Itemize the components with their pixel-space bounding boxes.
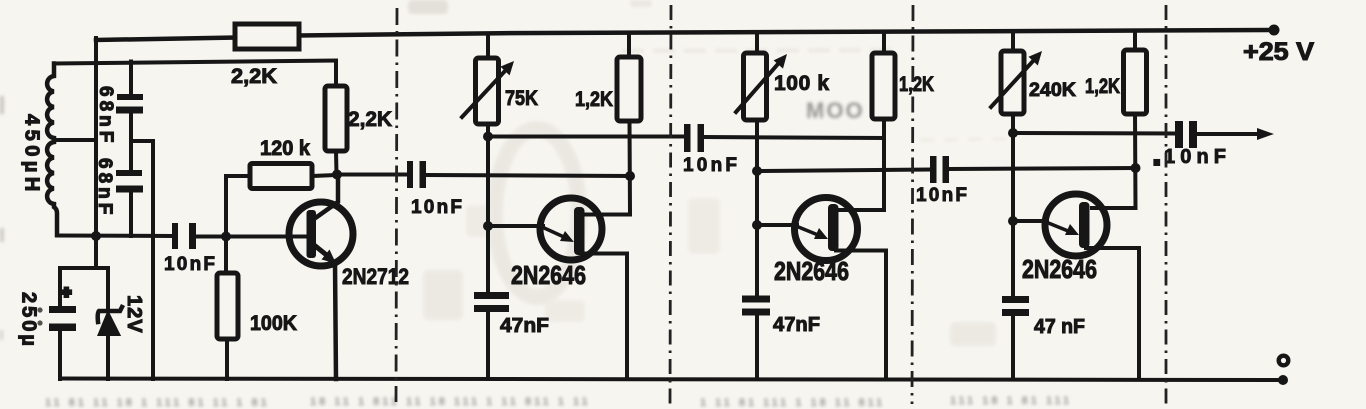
wire C10 to output arrow	[1196, 132, 1258, 136]
resistor R2 2,2K box	[325, 86, 347, 151]
wire C2 bottom lead to 12V line	[129, 192, 133, 236]
capacitor C5 10nF (collector coupling) plates	[407, 161, 426, 188]
capacitor C1 68nF top : lead	[129, 62, 133, 96]
separator dash-dot line 2	[670, 5, 671, 404]
svg-text:47nF: 47nF	[773, 314, 820, 336]
svg-text:450µH: 450µH	[21, 114, 43, 196]
scan artifact: bleed-through ring	[495, 129, 579, 297]
transistor Q2 2N2646 : circle	[540, 198, 602, 260]
output arrowhead	[1257, 128, 1274, 140]
wire cap junction to ground (jog right, down)	[131, 141, 153, 379]
svg-text:2N2712: 2N2712	[342, 265, 409, 290]
capacitor C7 47nF plates	[474, 292, 509, 312]
separator dash-dot line 3	[912, 5, 913, 404]
wire C8 to stage3 sync elbow	[949, 168, 1136, 169]
resistor R3 120k box	[250, 164, 312, 189]
capacitor C4 10nF (osc base coupling) plates	[172, 223, 196, 249]
svg-text:68nF: 68nF	[94, 158, 115, 218]
scan speck dots near 250µ	[37, 307, 42, 312]
transistor Q1 2N2712 : circle	[289, 202, 353, 266]
wire tank top (coil top to 2.2K collector load)	[54, 61, 336, 64]
svg-text:100K: 100K	[250, 312, 297, 335]
potentiometer P3 arrow	[991, 60, 1034, 107]
transistor Q3 emitter wire	[757, 223, 797, 227]
svg-text:10nF: 10nF	[411, 197, 462, 218]
capacitor C1 68nF plates	[116, 94, 143, 114]
transistor Q3 emitter diagonal + arrowhead	[796, 226, 818, 235]
resistor R7 1,2K : top lead	[1133, 32, 1137, 51]
svg-text:MOO: MOO	[806, 98, 865, 123]
transistor Q1 collector stroke and lead	[314, 174, 338, 219]
svg-text:10nF: 10nF	[164, 254, 215, 275]
node 0V rail end dot	[1278, 375, 1288, 385]
wire collector node to C5	[337, 173, 407, 177]
svg-text:111 18 1 81 111: 111 18 1 81 111	[950, 395, 1072, 407]
scan artifact: faint blob lower middle	[950, 322, 996, 346]
wire 0V bottom rail	[60, 379, 1283, 381]
potentiometer P1 75K box	[476, 58, 499, 124]
scan artifact: left edge specks	[0, 96, 4, 114]
resistor R4 100K box	[217, 273, 238, 339]
wire P3 bottom lead / emitter node vertical	[1011, 114, 1015, 297]
svg-text:1,2K: 1,2K	[575, 88, 613, 111]
transistor Q4 emitter wire	[1013, 219, 1047, 223]
svg-text:1,2K: 1,2K	[899, 73, 934, 96]
wire C3 bottom lead	[58, 331, 62, 379]
svg-text:10nF: 10nF	[683, 155, 737, 176]
scan artifact: faint dashed streak under rail	[622, 50, 900, 51]
transistor Q3 2N2646 : circle	[795, 198, 858, 261]
svg-text:47 nF: 47 nF	[1034, 316, 1085, 338]
wire C11 bottom lead	[1011, 316, 1015, 379]
potentiometer P1 arrow	[462, 71, 505, 117]
wire emitter node to C6	[488, 135, 684, 139]
svg-text:18 11 1 811 11 18 111 1 11 811: 18 11 1 811 11 18 111 1 11 811 1 11	[310, 396, 591, 408]
svg-text:10nF: 10nF	[916, 185, 967, 206]
transistor Q4 emitter diagonal + arrowhead	[1046, 222, 1068, 231]
wire P1 bottom lead / emitter node vertical	[486, 124, 490, 292]
potentiometer P2 100k : top lead	[755, 34, 759, 53]
node sync line junction	[625, 171, 635, 181]
wire +25V top rail	[96, 30, 1274, 40]
node emitter junction stage2	[752, 220, 762, 230]
diode D1 cathode bar with zener hooks	[98, 307, 122, 322]
node P1/emitter-line junction	[483, 132, 493, 142]
wire C9 bottom lead	[755, 315, 759, 379]
node emitter junction stage3	[1008, 216, 1018, 226]
resistor R7 1,2K box	[1124, 50, 1147, 114]
scan artifact: bleed-through blob left of ring	[423, 270, 463, 320]
inductor L1 450uH	[47, 64, 57, 236]
transistor Q4 2N2646 : circle	[1045, 194, 1107, 256]
resistor R2 2,2K (collector load, vertical) : top lead	[334, 61, 338, 86]
resistor R4 100K : top lead	[224, 236, 228, 273]
svg-text:11 81 11 18 1 111 81 11 1 81: 11 81 11 18 1 111 81 11 1 81	[45, 397, 270, 409]
capacitor C11 47nF plates	[1002, 296, 1029, 316]
node P2/emitter-line junction	[752, 166, 762, 176]
terminal O (output 0V)	[1279, 356, 1289, 366]
wire R4 bottom lead	[225, 339, 229, 379]
wire base line y236 (cap to Q1 base)	[196, 235, 305, 239]
scan artifact: faint streak right	[920, 139, 1010, 140]
transistor Q1 emitter arrowhead	[322, 250, 337, 264]
diode D1 zener 12V: top lead	[106, 268, 110, 309]
wire C7 bottom lead	[486, 312, 490, 379]
wire emitter node stage2 to C8	[757, 170, 930, 172]
wire R3 right lead to collector node	[312, 175, 337, 176]
node collector junction	[332, 170, 342, 180]
node junction base/120k/100K	[221, 232, 231, 242]
capacitor C8 10nF plates	[930, 156, 949, 183]
svg-text:+25 V: +25 V	[1243, 38, 1314, 66]
node sync line junction stage3	[1131, 163, 1141, 173]
svg-text:2,2K: 2,2K	[231, 65, 277, 88]
wire coil mid-tap	[54, 138, 96, 142]
wire 12V node horizontal y236 (coil bottom to 10nF C4)	[57, 234, 172, 239]
wire C6 to stage2 sync elbow	[704, 137, 884, 138]
svg-text:240K: 240K	[1029, 79, 1076, 101]
wire R2 bottom lead to collector node	[334, 151, 339, 175]
svg-text:2N2646: 2N2646	[1022, 255, 1097, 283]
potentiometer P2 arrow	[736, 64, 778, 112]
capacitor C6 10nF plates	[684, 124, 704, 152]
transistor Q4 base bar	[1079, 202, 1090, 248]
wire P2 bottom lead / emitter node vertical	[755, 120, 759, 297]
wire C1-C2 link	[129, 113, 133, 171]
transistor Q2 emitter diagonal + arrowhead	[542, 227, 564, 237]
scan artifact: top edge smudge	[408, 0, 448, 14]
node +25V rail end dot	[1269, 25, 1280, 36]
svg-text:47nF: 47nF	[500, 315, 549, 337]
diode D1 triangle (anode, pointing up)	[99, 312, 120, 335]
resistor R1 2,2K (series supply, horizontal)	[235, 24, 299, 49]
wire R6 lead down to B2 stage2	[839, 119, 884, 210]
potentiometer P3 240K box	[1001, 51, 1024, 114]
diode D1 bottom lead	[106, 335, 110, 379]
node P3/emitter-line junction	[1008, 128, 1018, 138]
transistor Q2 base bar	[574, 207, 585, 255]
svg-text:2,2K: 2,2K	[348, 108, 392, 131]
svg-text:75K: 75K	[505, 87, 538, 110]
wire Q4 B1 to 0V	[1086, 248, 1139, 379]
wire C5 to UJT1 B2 line	[426, 175, 630, 176]
separator dash-dot line 1	[396, 8, 397, 402]
capacitor C3 250µ electrolytic: top lead	[58, 268, 62, 307]
wire 12V node down to zener/cap combo	[60, 266, 108, 270]
wire R7 lead down to B2 stage3	[1092, 114, 1136, 208]
svg-text:68nF: 68nF	[95, 86, 116, 146]
wire Q2 B1 to 0V	[582, 254, 627, 380]
wire supply feed vertical x96 (rail to 12V node)	[94, 38, 98, 268]
wire emitter node stage3 to C10	[1013, 131, 1176, 136]
svg-text:+: +	[62, 284, 71, 301]
transistor Q2 emitter wire	[488, 224, 543, 228]
separator dash-dot line 4	[1165, 5, 1168, 404]
capacitor C10 10nF (output) plates	[1175, 121, 1197, 148]
wire Q3 B1 to 0V	[836, 251, 886, 380]
wire R5 lead down to B2 (sync node)	[585, 121, 630, 215]
node junction x96/y236	[91, 231, 101, 241]
transistor Q1 emitter lead	[335, 263, 336, 379]
potentiometer P1 75K : top lead	[486, 35, 490, 58]
capacitor C9 47nF plates	[742, 296, 770, 316]
svg-text:2N2646: 2N2646	[511, 261, 586, 289]
svg-text:1,2K: 1,2K	[1085, 75, 1120, 98]
svg-text:.: .	[1154, 147, 1160, 169]
resistor R6 1,2K : top lead	[882, 34, 886, 54]
potentiometer P2 100k box	[744, 53, 767, 120]
capacitor C3 250µ plates	[49, 306, 76, 331]
resistor R3 120k : left lead elbow down to base node	[226, 176, 250, 236]
potentiometer P3 240K : top lead	[1011, 33, 1015, 52]
svg-text:120 k: 120 k	[260, 137, 310, 160]
resistor R5 1,2K : top lead	[627, 35, 631, 58]
svg-text:2N2646: 2N2646	[774, 257, 849, 285]
svg-text:100 k: 100 k	[774, 72, 829, 95]
node emitter junction stage1	[483, 221, 493, 231]
capacitor C2 68nF plates	[116, 170, 143, 193]
svg-text:12V: 12V	[123, 295, 145, 334]
svg-text:1 11 81 111 1 18 11 811: 1 11 81 111 1 18 11 811	[700, 397, 885, 409]
transistor Q1 base bar	[307, 210, 317, 258]
resistor R5 1,2K box	[617, 57, 641, 121]
transistor Q1 emitter stroke	[314, 245, 329, 257]
svg-text:250µ: 250µ	[18, 292, 40, 349]
resistor R6 1,2K box	[872, 53, 895, 119]
transistor Q3 base bar	[828, 204, 839, 251]
